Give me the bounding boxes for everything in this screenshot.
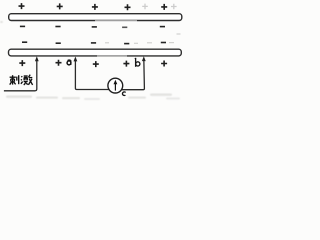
faint plus marks (scan artifacts): [142, 4, 176, 10]
electrode label b: [135, 58, 140, 67]
minus sign row 3 (inside bottom membrane): [22, 42, 166, 43]
galvanometer needle arrow: [114, 84, 116, 91]
minus 3: [91, 42, 96, 44]
electrode a wire: [75, 59, 109, 90]
minus sign row 2 (inside top membrane): [20, 25, 165, 28]
bottom membrane bar 2: [9, 49, 182, 56]
stimulus wire (L-shape): [4, 59, 37, 91]
stimulus arrowhead: [35, 56, 39, 61]
plus 4: [125, 4, 131, 10]
stimulus label 刺激 (drawn strokes): [10, 75, 33, 85]
plus 5: [161, 61, 167, 67]
plus 4: [123, 61, 129, 67]
minus 5: [161, 42, 166, 44]
plus 1: [19, 3, 25, 9]
fade on bar2 bottom line: [97, 55, 127, 57]
minus 4: [124, 43, 129, 45]
minus 2: [55, 26, 60, 28]
galvanometer circle: [108, 78, 123, 93]
刺 character: [10, 76, 16, 78]
plus 3: [92, 4, 98, 10]
minus 1: [20, 25, 25, 27]
plus 5: [161, 4, 167, 10]
minus 2: [56, 42, 61, 44]
electrode a arrowhead: [74, 57, 78, 62]
plus 3: [93, 61, 99, 67]
galvanometer label c: [122, 92, 125, 96]
fade on bar1 bottom line: [95, 20, 137, 22]
plus 2: [57, 3, 63, 9]
plus sign row 1 (outside top membrane): [19, 3, 168, 10]
plus 2: [56, 60, 62, 66]
minus 3: [92, 26, 97, 28]
激 character: [21, 76, 23, 84]
minus 5: [160, 26, 165, 28]
background: [0, 0, 185, 103]
plus sign row 4 (outside bottom membrane): [19, 60, 167, 67]
electrode b wire: [122, 58, 145, 90]
scan noise bottom: [0, 21, 180, 100]
top membrane bar 1: [9, 14, 182, 21]
electrode b arrowhead: [142, 56, 146, 61]
plus 1: [19, 60, 25, 66]
faint scan smudges near row 3: [105, 34, 181, 43]
minus 4: [122, 26, 127, 28]
electrode label a: [67, 60, 71, 65]
minus 1: [22, 41, 27, 43]
